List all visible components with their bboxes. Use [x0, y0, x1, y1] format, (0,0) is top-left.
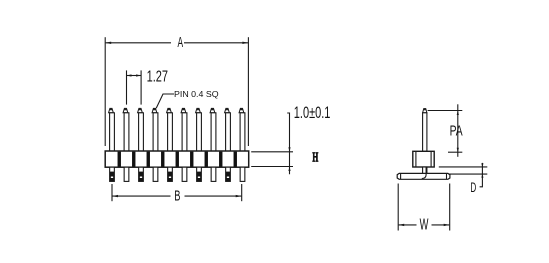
dimension 1.27 line with arrows — [127, 74, 142, 76]
dimension D extension line bottom — [448, 173, 487, 175]
body cell separator 3 — [147, 152, 150, 167]
svg-text:1.27: 1.27 — [147, 68, 168, 85]
dimension D line with ticks — [480, 163, 484, 187]
pin 3 solder tail — [139, 167, 144, 181]
dimension A line with arrows — [105, 42, 248, 44]
note PIN 0.4 SQ leader — [156, 94, 174, 108]
pin 5 solder tail — [168, 167, 173, 181]
pin 3 top post — [138, 108, 144, 151]
side view pin bend into foot — [422, 167, 426, 179]
dimension B extension lines — [112, 184, 242, 201]
side view solder feet (bent leads) — [397, 173, 450, 179]
pin 1 solder tail — [110, 167, 115, 181]
svg-text:PA: PA — [450, 124, 463, 140]
pin 7 solder tail — [197, 167, 202, 181]
pin 9 solder tail — [226, 167, 231, 181]
connector body (front view) — [105, 151, 249, 167]
pin 4 solder tail — [153, 167, 158, 181]
dimension 1.0 leader vertical line — [287, 113, 290, 174]
svg-text:PIN 0.4 SQ: PIN 0.4 SQ — [174, 89, 219, 99]
body cell separator 9 — [234, 152, 237, 167]
dimension B line with arrows — [112, 195, 242, 197]
body cell separator 7 — [205, 152, 208, 167]
body cell separator 6 — [190, 152, 193, 167]
body cell separator 4 — [161, 152, 164, 167]
pin 2 top post — [123, 108, 129, 151]
dimension PA reference line bottom — [448, 151, 462, 153]
body cell separator 2 — [132, 152, 135, 167]
dimension H extension line bottom — [251, 166, 293, 168]
side view body — [413, 151, 434, 167]
pin 4 top post — [152, 108, 158, 151]
pin 9 top post — [225, 108, 231, 151]
pin 1 top post — [109, 108, 115, 151]
pin 6 solder tail — [182, 167, 187, 181]
svg-text:A: A — [178, 34, 184, 51]
svg-text:H: H — [312, 150, 318, 165]
body cell separator 8 — [219, 152, 222, 167]
pin 10 top post — [239, 108, 245, 151]
svg-text:B: B — [174, 187, 180, 204]
pin 5 top post — [167, 108, 173, 151]
pin 10 solder tail — [240, 167, 245, 181]
dimension W line with arrows — [398, 224, 450, 226]
svg-text:1.0±0.1: 1.0±0.1 — [294, 103, 331, 122]
body cell separator 5 — [176, 152, 179, 167]
pin 6 top post — [181, 108, 187, 151]
pin 8 solder tail — [211, 167, 216, 181]
dimension PA reference line top — [428, 110, 463, 112]
body cell separator 1 — [118, 152, 121, 167]
dimension A extension line left — [104, 37, 106, 146]
svg-text:W: W — [420, 216, 429, 233]
dimension W extension lines — [398, 184, 450, 231]
dimension H extension line top — [251, 151, 293, 153]
svg-text:D: D — [470, 180, 476, 195]
dimension D extension line top — [439, 166, 488, 168]
side view pin below body — [423, 167, 427, 174]
side view pin top post — [423, 108, 427, 151]
pin 2 solder tail — [124, 167, 129, 181]
dimension 1.27 extension lines — [127, 70, 142, 104]
pin 8 top post — [210, 108, 216, 151]
dimension A extension line right — [247, 37, 249, 146]
dimension PA line with ticks — [457, 104, 459, 157]
pin 7 top post — [196, 108, 202, 151]
